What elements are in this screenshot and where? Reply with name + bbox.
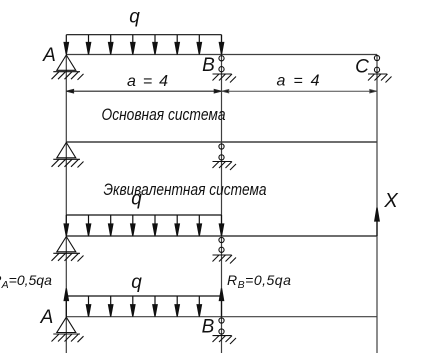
support B roller on beam 1 — [213, 56, 237, 83]
force X arrow — [375, 208, 379, 236]
distributed load q on beam 3 — [64, 215, 224, 236]
support A pin on beam 3 — [52, 237, 84, 262]
distributed load q on beam 1 — [64, 35, 224, 55]
wire vertical line C — [376, 55, 378, 354]
support B roller on beam 3 — [213, 237, 237, 263]
svg-text:a=4: a=4 — [277, 73, 320, 90]
svg-text:q: q — [131, 189, 142, 210]
wire vertical line A — [65, 55, 67, 353]
dimension line a=4 span AB — [66, 90, 221, 93]
support A pin on beam 2 — [52, 143, 84, 168]
svg-text:Эквивалентная система: Эквивалентная система — [104, 181, 267, 199]
support C roller on beam 1 — [368, 55, 392, 82]
svg-text:C: C — [355, 57, 369, 78]
wire vertical line B — [221, 35, 223, 353]
beam 2 (primary system) — [66, 141, 377, 143]
beam 4 (simple beam AB with reactions) — [66, 316, 377, 318]
svg-text:q: q — [131, 272, 142, 293]
svg-text:B: B — [202, 55, 215, 76]
support B roller on beam 4 — [213, 318, 237, 344]
svg-text:A: A — [42, 45, 56, 66]
svg-text:q: q — [129, 7, 140, 28]
svg-text:Основная система: Основная система — [102, 106, 226, 124]
beam 3 (equivalent system) — [66, 235, 377, 237]
svg-text:X: X — [383, 190, 398, 212]
dimension line a=4 span BC — [222, 90, 378, 93]
support B roller on beam 2 — [213, 144, 237, 170]
beam 1 (original system A-B-C) — [66, 54, 377, 56]
distributed load q on beam 4 — [66, 296, 221, 317]
svg-text:a=4: a=4 — [127, 73, 168, 90]
reaction RB arrow — [219, 288, 223, 316]
support A pin on beam 4 — [52, 317, 84, 342]
support A pin on beam 1 — [52, 55, 84, 80]
svg-text:B: B — [202, 317, 215, 338]
reaction RA arrow — [64, 288, 68, 316]
svg-text:A: A — [40, 307, 54, 328]
